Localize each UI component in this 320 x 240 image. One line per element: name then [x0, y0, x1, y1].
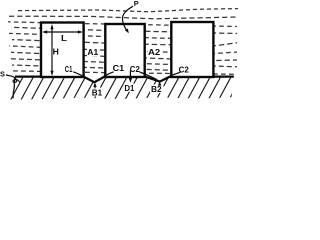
- dashed field lines (rows): [8, 9, 238, 75]
- wire row 8: [11, 52, 237, 60]
- svg-text:L: L: [61, 34, 67, 43]
- substrate top edge with grooves B1 B2: [15, 77, 234, 83]
- label A2: [148, 47, 161, 56]
- dimension L arrow: [42, 30, 83, 33]
- svg-text:C1: C1: [113, 64, 125, 73]
- label H: [53, 46, 60, 56]
- svg-text:D1: D1: [124, 83, 134, 93]
- wire row 10: [12, 65, 213, 72]
- label P with curved leader arrow into block 2: [132, 0, 140, 8]
- wire row 2: [9, 16, 238, 19]
- svg-text:C1: C1: [65, 65, 73, 74]
- svg-text:A1: A1: [87, 48, 98, 57]
- label B1 with up arrow to groove 1: [91, 88, 104, 97]
- substrate left torn edge: [13, 77, 16, 99]
- label A1: [87, 47, 100, 56]
- svg-text:A2: A2: [148, 48, 161, 57]
- block 1 (left electrode): [41, 23, 84, 78]
- wire row 9: [9, 59, 237, 67]
- wire row 1: [18, 9, 238, 12]
- wire row 7: [9, 46, 237, 54]
- svg-text:C2: C2: [130, 65, 141, 74]
- label B2 with up arrow to groove 2: [150, 84, 164, 93]
- wire row 5: [9, 33, 213, 39]
- block 3 (right electrode): [171, 22, 213, 77]
- svg-text:H: H: [53, 47, 59, 57]
- svg-text:S: S: [0, 69, 5, 78]
- wire row 4: [11, 27, 237, 33]
- svg-text:P: P: [134, 0, 139, 8]
- dimension H arrow: [50, 24, 53, 76]
- wire row 3: [8, 22, 237, 27]
- wire row 11: [10, 71, 237, 75]
- wire row 6: [12, 40, 237, 46]
- label D1 with down arrow into substrate: [129, 71, 131, 80]
- svg-text:B1: B1: [92, 87, 103, 97]
- block 2 (center electrode P): [105, 24, 144, 77]
- svg-text:C2: C2: [179, 65, 190, 74]
